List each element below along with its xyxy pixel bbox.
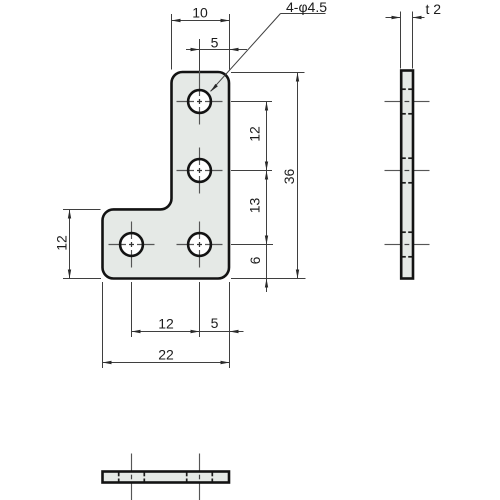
dimension 36 xyxy=(297,73,299,279)
svg-text:5: 5 xyxy=(211,35,219,51)
dimension 12 right chain xyxy=(266,102,268,293)
svg-text:10: 10 xyxy=(192,5,208,21)
bottom view plate outline xyxy=(103,472,230,483)
main view L-plate outline xyxy=(103,72,230,279)
svg-text:6: 6 xyxy=(247,256,263,264)
side view centerline y=170.5 xyxy=(385,170,430,172)
leader arrowhead xyxy=(211,84,218,92)
bottom view plate fill xyxy=(103,472,230,483)
side view centerline y=244.5 xyxy=(385,244,430,246)
hole H1 centerlines xyxy=(177,71,223,125)
dimension 12 left xyxy=(63,210,101,279)
hole H4 center mark xyxy=(129,242,134,247)
dimension 10 top xyxy=(172,14,230,70)
side view hidden hole lines y=170.5 xyxy=(402,158,412,183)
hole H4 white xyxy=(120,233,143,256)
side view centerline y=101.5 xyxy=(385,101,430,103)
hole H2 centerlines xyxy=(177,148,223,194)
bottom view centerline x=199.5 xyxy=(199,454,201,500)
hole H3 centerlines xyxy=(177,222,223,268)
hole H3 white xyxy=(188,233,211,256)
side view hidden hole lines y=244.5 xyxy=(402,232,412,257)
hole H4 ring xyxy=(120,233,143,256)
bottom view hidden hole lines x=131.5 xyxy=(119,472,145,482)
dimension 22 xyxy=(103,362,230,364)
svg-text:12: 12 xyxy=(54,235,70,251)
hole H1 white xyxy=(188,90,211,113)
label 4-phi4.5 leader xyxy=(211,14,326,92)
svg-text:t 2: t 2 xyxy=(426,1,442,17)
svg-text:22: 22 xyxy=(158,347,174,363)
bottom extension lines xyxy=(103,282,230,368)
svg-text:5: 5 xyxy=(211,315,219,331)
svg-text:12: 12 xyxy=(247,126,263,142)
side view plate outline (right) xyxy=(401,71,413,279)
hole H3 ring xyxy=(188,233,211,256)
right chain extension lines xyxy=(231,73,306,279)
side view plate fill (right) xyxy=(401,71,413,279)
svg-text:36: 36 xyxy=(281,169,297,185)
hole H2 center mark xyxy=(197,168,202,173)
hole H2 white xyxy=(188,159,211,182)
dimension 12 bottom xyxy=(132,331,244,333)
dimension 13 right chain xyxy=(265,171,268,245)
dimension 5 bottom xyxy=(230,330,239,333)
bottom view hidden hole lines x=199.5 xyxy=(187,472,213,482)
hole H3 center mark xyxy=(197,242,202,247)
hole H1 center mark xyxy=(197,99,202,104)
dimension t2 xyxy=(386,12,425,69)
svg-text:4-φ4.5: 4-φ4.5 xyxy=(286,0,327,15)
hole H1 ring xyxy=(188,90,211,113)
dimension 6 right chain xyxy=(265,279,268,288)
side view hidden hole lines y=101.5 xyxy=(402,89,412,114)
dimension 5 top xyxy=(186,39,247,71)
svg-text:13: 13 xyxy=(247,198,263,214)
bottom view centerline x=131.5 xyxy=(131,454,133,500)
svg-text:12: 12 xyxy=(158,316,174,332)
hole H2 ring xyxy=(188,159,211,182)
hole H4 centerlines xyxy=(109,222,155,268)
